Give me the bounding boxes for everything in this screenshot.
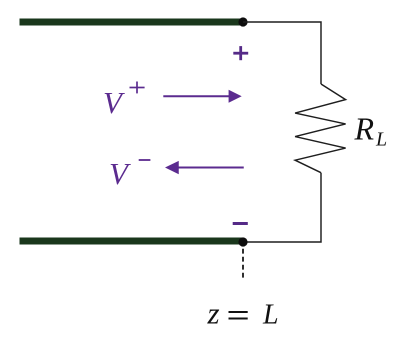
node: top terminal junction dot: [238, 17, 247, 26]
plus polarity symbol at top terminal: [233, 46, 248, 60]
wire: top transmission-line conductor: [20, 19, 244, 26]
svg-text:V: V: [103, 85, 125, 120]
svg-text:R: R: [354, 111, 375, 147]
equals sign of z = L: [229, 312, 248, 319]
resistor RL: [295, 84, 346, 173]
superscript plus of V+: [130, 82, 145, 94]
svg-text:L: L: [375, 129, 387, 151]
wire: bottom transmission-line conductor: [20, 238, 244, 245]
superscript minus of V-: [139, 159, 151, 161]
svg-text:z: z: [207, 296, 220, 331]
dashed reference line at z = L: [242, 249, 244, 279]
wire: top lead from node to resistor RL: [243, 22, 321, 84]
minus polarity symbol at bottom terminal: [233, 222, 248, 225]
wire: bottom lead from resistor RL to node: [243, 173, 321, 242]
svg-text:L: L: [262, 300, 279, 331]
arrow: reflected wave V- direction (pointing left): [165, 161, 244, 174]
arrow: forward wave V+ direction (pointing right): [163, 90, 241, 103]
svg-text:V: V: [109, 156, 131, 191]
node: bottom terminal junction dot: [238, 237, 247, 246]
